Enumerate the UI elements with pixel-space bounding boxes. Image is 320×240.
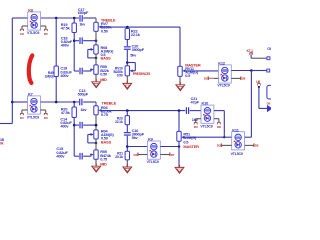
svg-text:5kv: 5kv xyxy=(132,135,139,140)
svg-text:VTL5C9: VTL5C9 xyxy=(147,160,159,164)
svg-text:22.1k: 22.1k xyxy=(115,120,123,124)
svg-text:MID: MID xyxy=(100,162,107,167)
svg-text:D8: D8 xyxy=(242,77,246,81)
svg-text:680pF: 680pF xyxy=(78,10,89,15)
svg-text:400v: 400v xyxy=(56,153,65,158)
svg-text:D6: D6 xyxy=(44,116,48,120)
svg-text:47.5k: 47.5k xyxy=(61,110,71,115)
svg-text:0.50: 0.50 xyxy=(101,28,108,33)
svg-text:PRESENCE1: PRESENCE1 xyxy=(133,72,151,76)
svg-text:D4: D4 xyxy=(133,153,137,157)
svg-text:MASTER: MASTER xyxy=(183,144,199,149)
svg-text:47pF: 47pF xyxy=(191,100,200,105)
svg-text:400v: 400v xyxy=(60,124,69,129)
svg-text:D3: D3 xyxy=(217,144,221,148)
svg-text:MID: MID xyxy=(100,77,107,82)
svg-text:D8: D8 xyxy=(217,125,221,129)
svg-text:0.50: 0.50 xyxy=(100,71,107,76)
svg-text:1kv: 1kv xyxy=(80,107,87,112)
svg-text:VTL5C9: VTL5C9 xyxy=(27,31,39,35)
svg-text:BASS: BASS xyxy=(101,139,112,144)
svg-text:BASS: BASS xyxy=(101,56,112,61)
svg-text:D7: D7 xyxy=(171,153,175,157)
svg-text:D5: D5 xyxy=(44,32,48,36)
svg-text:D5: D5 xyxy=(267,101,271,105)
svg-text:400v: 400v xyxy=(60,73,69,78)
svg-text:1kv: 1kv xyxy=(79,21,86,26)
svg-text:0.75: 0.75 xyxy=(101,112,109,117)
svg-text:0.50: 0.50 xyxy=(117,74,123,78)
svg-text:1kv: 1kv xyxy=(192,117,199,122)
svg-text:VTL5C9: VTL5C9 xyxy=(200,125,212,129)
svg-text:22.1k: 22.1k xyxy=(131,32,141,37)
svg-text:500pF: 500pF xyxy=(78,91,89,96)
svg-text:K7: K7 xyxy=(28,92,33,97)
svg-text:20.1k: 20.1k xyxy=(115,155,123,159)
svg-text:47.5k: 47.5k xyxy=(61,25,71,30)
svg-text:K12: K12 xyxy=(218,61,226,66)
svg-text:VTL5C9: VTL5C9 xyxy=(231,152,243,156)
svg-text:C9: C9 xyxy=(267,47,271,51)
svg-text:D3: D3 xyxy=(194,125,198,129)
svg-text:VTL5C9: VTL5C9 xyxy=(217,84,229,88)
svg-text:K11: K11 xyxy=(232,127,239,132)
svg-text:D2: D2 xyxy=(20,32,24,36)
svg-text:400v: 400v xyxy=(61,42,70,47)
svg-text:D2: D2 xyxy=(204,77,208,81)
svg-text:K10: K10 xyxy=(202,101,209,106)
svg-text:VTL5C9: VTL5C9 xyxy=(27,115,39,119)
svg-text:D8: D8 xyxy=(255,144,259,148)
svg-text:5kv: 5kv xyxy=(130,52,137,57)
svg-text:1M(G): 1M(G) xyxy=(45,74,54,78)
svg-text:D1: D1 xyxy=(20,116,24,120)
svg-text:3900pF: 3900pF xyxy=(132,47,145,52)
svg-text:0k: 0k xyxy=(0,142,4,146)
